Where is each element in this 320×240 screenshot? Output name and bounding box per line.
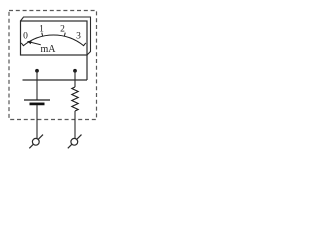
tick 2	[63, 33, 66, 37]
tick 3	[84, 43, 86, 46]
wire: resistor to right terminal	[74, 111, 76, 139]
battery BT1 long plate	[24, 99, 50, 101]
needle arrowhead	[27, 41, 32, 44]
tick 0	[21, 43, 23, 46]
right terminal T2 circle	[71, 138, 78, 145]
wire: left branch vertical	[36, 71, 38, 100]
meter scale arc	[23, 35, 84, 46]
resistor R1 zigzag	[72, 87, 78, 111]
svg-text:1: 1	[39, 24, 44, 34]
dashed enclosure border	[9, 11, 97, 120]
wire: right branch vertical to resistor	[74, 71, 76, 87]
svg-text:mA: mA	[41, 44, 57, 55]
svg-text:0: 0	[23, 31, 28, 41]
svg-text:3: 3	[76, 31, 81, 41]
node A (left junction dot)	[35, 69, 39, 73]
ammeter U1 front face	[21, 21, 88, 55]
ammeter U1 case back (3D offset)	[21, 17, 91, 55]
battery BT1 short thick plate	[30, 103, 45, 106]
wire: meter right edge down to bus	[86, 55, 88, 80]
left terminal T1 circle	[32, 138, 39, 145]
tick 1	[41, 33, 44, 37]
node B (right junction dot)	[73, 69, 77, 73]
scale plate white patch under unit label	[41, 44, 56, 53]
background	[0, 0, 107, 156]
wire: battery to left terminal	[36, 105, 38, 139]
wire: horizontal bus	[23, 79, 88, 81]
needle	[28, 42, 51, 48]
svg-text:2: 2	[60, 24, 65, 34]
left terminal T1 diagonal pin	[29, 135, 43, 149]
right terminal T2 diagonal pin	[68, 135, 82, 149]
